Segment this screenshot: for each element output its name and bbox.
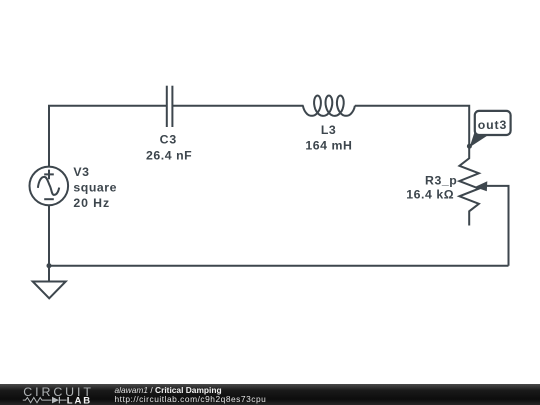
svg-text:164 mH: 164 mH bbox=[305, 139, 352, 153]
wire: L3 to top-right corner, down to out3 node bbox=[355, 106, 469, 146]
V3 plus sign bbox=[44, 170, 54, 180]
logo diode bbox=[52, 397, 59, 404]
capacitor C3 plates bbox=[166, 86, 168, 127]
logo wire + resistor zigzag bbox=[23, 398, 52, 403]
svg-text:R3_p: R3_p bbox=[425, 173, 457, 187]
svg-text:LAB: LAB bbox=[67, 395, 92, 405]
wire: bottom horizontal bbox=[49, 265, 509, 267]
logo wire to LAB bbox=[59, 399, 66, 401]
svg-text:V3: V3 bbox=[73, 165, 89, 179]
svg-text:C3: C3 bbox=[160, 133, 178, 147]
wire: wiper to right vertical bbox=[487, 186, 509, 266]
footer credit line 2 bbox=[115, 395, 267, 403]
ground symbol bbox=[33, 282, 66, 299]
V3 minus sign bbox=[44, 198, 54, 200]
svg-text:L3: L3 bbox=[321, 123, 336, 137]
junction dot (out3 node) bbox=[467, 144, 472, 149]
svg-text:26.4 nF: 26.4 nF bbox=[146, 149, 192, 163]
footer credit line 1 bbox=[115, 386, 222, 394]
voltage source V3 circle bbox=[30, 167, 69, 206]
node out3 flag tail bbox=[470, 131, 490, 148]
CircuitLab logo bbox=[0, 384, 110, 405]
svg-text:square: square bbox=[73, 181, 117, 195]
wire: left vertical + top horizontal to C3 bbox=[49, 106, 167, 167]
node out3 flag box bbox=[475, 111, 511, 135]
wire: V3 bottom to ground junction bbox=[48, 205, 50, 282]
resistor R3_p zigzag body bbox=[459, 146, 479, 226]
inductor L3 coil bbox=[303, 96, 355, 116]
junction dot (ground node) bbox=[47, 263, 52, 268]
R3_p wiper arrow bbox=[475, 181, 488, 191]
wire: C3 right plate to L3 bbox=[172, 105, 303, 107]
V3 sine symbol bbox=[38, 177, 59, 195]
footer bar bbox=[0, 384, 540, 405]
svg-text:20 Hz: 20 Hz bbox=[73, 196, 110, 210]
svg-text:out3: out3 bbox=[478, 118, 508, 132]
svg-text:16.4 kΩ: 16.4 kΩ bbox=[406, 187, 454, 201]
